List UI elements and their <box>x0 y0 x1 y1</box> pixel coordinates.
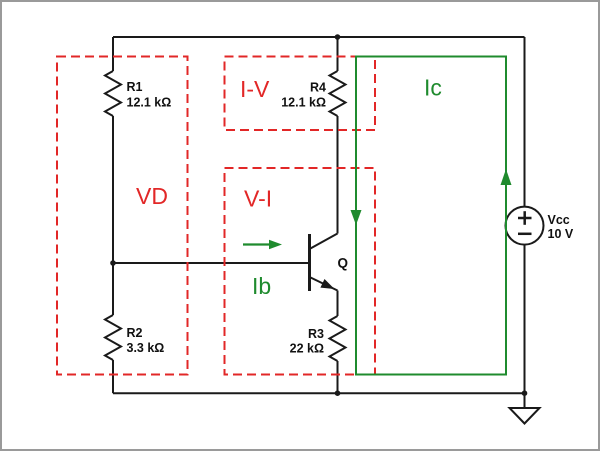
svg-text:12.1 kΩ: 12.1 kΩ <box>127 96 172 110</box>
transistor Q1 base bar <box>308 234 311 291</box>
node bottom rail junction middle <box>335 390 341 396</box>
node divider tap junction <box>110 260 116 266</box>
wire collector vertical (R4 to transistor) <box>337 116 339 234</box>
wire left branch middle (R1 to R2) <box>112 116 114 315</box>
wire bottom rail <box>113 392 525 394</box>
svg-text:VD: VD <box>136 183 168 209</box>
svg-text:3.3 kΩ: 3.3 kΩ <box>127 341 165 355</box>
resistor R4 <box>330 71 346 116</box>
node bottom rail junction right <box>522 390 528 396</box>
wire middle branch upper (top rail to R4) <box>337 37 339 71</box>
wire right branch upper (top rail to Vcc source) <box>524 37 526 207</box>
wire right branch lower (Vcc source to bottom rail) <box>524 245 526 393</box>
annotation loop VD box <box>57 57 188 375</box>
wire left branch lower (R2 to bottom rail) <box>112 360 114 393</box>
svg-text:Vcc: Vcc <box>548 213 570 227</box>
voltage source minus sign <box>518 233 532 236</box>
svg-text:Q: Q <box>338 256 349 271</box>
wire emitter vertical (transistor to R3) <box>337 291 339 317</box>
Ic loop up arrow <box>501 169 512 185</box>
svg-text:Ib: Ib <box>252 273 271 299</box>
annotation loop I-V box <box>225 57 376 131</box>
resistor R1 <box>105 71 121 116</box>
svg-text:R2: R2 <box>127 326 143 340</box>
node top rail junction <box>335 34 341 40</box>
transistor Q1 emitter arrow <box>320 279 334 289</box>
ground <box>510 408 540 424</box>
svg-text:10 V: 10 V <box>548 227 574 241</box>
svg-text:V-I: V-I <box>244 186 272 212</box>
ground stem <box>524 393 526 408</box>
transistor Q1 emitter lead <box>310 277 338 291</box>
wire top rail <box>113 36 525 38</box>
svg-text:Ic: Ic <box>424 75 442 101</box>
svg-text:R1: R1 <box>127 80 143 94</box>
svg-text:R3: R3 <box>308 327 324 341</box>
svg-text:22 kΩ: 22 kΩ <box>290 342 324 356</box>
wire middle branch lower (R3 to bottom rail) <box>337 361 339 393</box>
Ib arrow shaft <box>243 243 271 245</box>
voltage source plus sign <box>518 217 532 220</box>
transistor Q1 collector lead <box>310 234 338 250</box>
Ib arrow head <box>269 240 282 250</box>
wire left branch upper (top rail to R1) <box>112 37 114 71</box>
resistor R2 <box>105 315 121 360</box>
svg-text:R4: R4 <box>310 81 326 95</box>
svg-text:I-V: I-V <box>240 76 270 102</box>
Ic loop down arrow <box>351 210 362 225</box>
current loop Ic <box>356 57 506 375</box>
wire base (divider tap to transistor base) <box>113 262 310 264</box>
resistor R3 <box>330 316 346 361</box>
annotation loop V-I box <box>225 168 376 375</box>
svg-text:12.1 kΩ: 12.1 kΩ <box>281 96 326 110</box>
voltage source Vcc body <box>506 207 544 245</box>
